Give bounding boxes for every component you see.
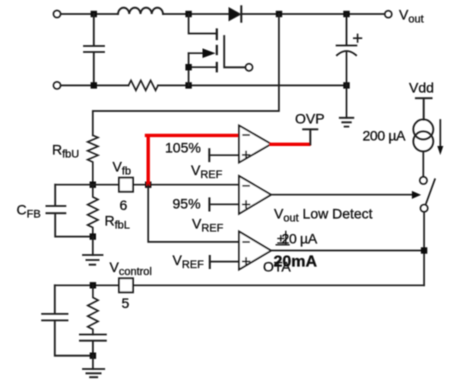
arrowhead at switch bbox=[412, 191, 421, 199]
wire output cap to ground bbox=[346, 85, 348, 117]
svg-text:Vcontrol: Vcontrol bbox=[110, 259, 152, 278]
current source arrow bbox=[439, 120, 441, 147]
wire RfbL to ground bbox=[92, 237, 94, 255]
diode D bbox=[229, 8, 241, 21]
OVP terminal bbox=[303, 129, 317, 144]
inductor L bbox=[118, 8, 163, 14]
input terminal top-left bbox=[53, 10, 60, 17]
reference source 105% VREF bbox=[208, 149, 210, 161]
switch SW bbox=[420, 177, 427, 184]
svg-text:RfbU: RfbU bbox=[52, 142, 79, 161]
svg-text:VREF: VREF bbox=[192, 216, 224, 235]
svg-text:RfbL: RfbL bbox=[105, 213, 130, 232]
capacitor CFB bbox=[46, 185, 92, 237]
wire switch to OTA output node bbox=[423, 212, 425, 285]
strike line under ±20 bbox=[276, 232, 289, 245]
node switch-drain junction bbox=[185, 11, 191, 17]
svg-text:20 µA: 20 µA bbox=[282, 231, 318, 247]
node Vfb comparator junction bbox=[145, 182, 151, 188]
output terminal Vout bbox=[385, 11, 392, 18]
op-amp U2 Vout low detect comparator bbox=[239, 176, 271, 214]
node input-cap bottom junction bbox=[91, 82, 97, 88]
node RfbL-CFB junction bbox=[90, 233, 96, 239]
svg-text:95%: 95% bbox=[173, 196, 201, 212]
wire current source to switch bbox=[422, 151, 424, 176]
gate terminal circle bbox=[245, 64, 252, 71]
svg-text:Vout: Vout bbox=[399, 7, 424, 26]
ground RfbL bbox=[83, 255, 103, 265]
svg-text:Vout Low Detect: Vout Low Detect bbox=[274, 206, 373, 225]
svg-text:200 µA: 200 µA bbox=[363, 128, 407, 144]
capacitor Vcontrol left bbox=[42, 285, 93, 355]
resistor bottom-rail sense bbox=[129, 80, 159, 90]
transistor Q1 gate line bbox=[224, 36, 245, 67]
wire feedback from Vout node bbox=[93, 14, 279, 135]
reference source 95% VREF bbox=[208, 198, 210, 210]
wire comparator output to switch bbox=[271, 194, 413, 196]
node Vout feedback junction bbox=[276, 11, 282, 17]
wire Vfb node row bbox=[55, 184, 239, 186]
wire to ground Vcontrol bbox=[92, 356, 94, 369]
reference source VREF OTA bbox=[209, 256, 211, 268]
red wire Vfb to OVP comparator bbox=[147, 135, 240, 184]
node Vcontrol RC bottom junction bbox=[90, 353, 96, 359]
wire bottom rail bbox=[61, 84, 347, 86]
transistor Q1 body arrow bbox=[189, 52, 203, 54]
current source I 200uA bbox=[413, 119, 433, 139]
transistor Q1 MOSFET drain lead bbox=[189, 14, 217, 34]
node Vfb divider bbox=[90, 182, 96, 188]
plus sign output cap bbox=[354, 34, 362, 42]
node output-cap bottom junction bbox=[343, 82, 349, 88]
wire OTA output bbox=[271, 250, 424, 252]
svg-text:CFB: CFB bbox=[17, 202, 41, 221]
capacitor Vcontrol series bbox=[80, 335, 106, 356]
pin 6 square bbox=[119, 178, 133, 192]
node output-cap junction bbox=[343, 11, 349, 17]
red wire OVP output bbox=[271, 143, 309, 146]
node Vcontrol branch junction bbox=[90, 282, 96, 288]
node source-body junction bbox=[185, 64, 191, 70]
svg-text:105%: 105% bbox=[165, 140, 201, 156]
op-amp U1 OVP comparator bbox=[239, 126, 271, 163]
wire to Vcontrol pin bbox=[55, 284, 424, 286]
input terminal bottom-left bbox=[53, 82, 60, 89]
transistor Q1 channel bars bbox=[216, 30, 218, 72]
node MOSFET source junction bbox=[185, 82, 191, 88]
transistor Q1 source lead bbox=[189, 53, 217, 85]
svg-text:20mA: 20mA bbox=[274, 254, 318, 271]
node OTA output switch junction bbox=[421, 247, 427, 253]
resistor RfbU bbox=[88, 135, 98, 184]
svg-text:5: 5 bbox=[122, 295, 130, 311]
ground output cap bbox=[340, 118, 354, 127]
op-amp U3 OTA bbox=[239, 232, 271, 270]
input capacitor bbox=[84, 14, 104, 85]
resistor RfbL bbox=[88, 185, 98, 237]
svg-text:Vfb: Vfb bbox=[113, 159, 132, 178]
svg-text:Vdd: Vdd bbox=[409, 80, 434, 96]
svg-text:OVP: OVP bbox=[295, 111, 325, 127]
node top input-cap junction bbox=[91, 11, 97, 17]
ground Vcontrol bbox=[83, 369, 104, 377]
wire top rail bbox=[61, 13, 385, 15]
wire Vfb to OTA inverting input bbox=[148, 185, 239, 242]
resistor Vcontrol series bbox=[88, 285, 98, 334]
svg-text:6: 6 bbox=[120, 197, 128, 213]
Vdd terminal bbox=[416, 98, 432, 119]
output capacitor electrolytic bbox=[337, 14, 357, 46]
svg-text:VREF: VREF bbox=[173, 252, 205, 271]
svg-text:VREF: VREF bbox=[191, 162, 223, 181]
pin 5 square bbox=[119, 278, 133, 292]
